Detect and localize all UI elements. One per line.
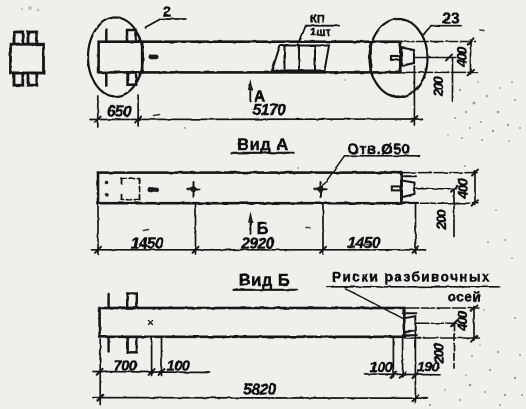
svg-text:осей: осей — [448, 290, 481, 305]
svg-text:100: 100 — [167, 359, 190, 375]
svg-text:1450: 1450 — [131, 236, 164, 253]
svg-text:190: 190 — [417, 359, 440, 375]
svg-text:400: 400 — [455, 310, 470, 332]
hole 1 — [188, 182, 200, 197]
hole 2 — [315, 182, 327, 197]
mid axis line right — [415, 57, 456, 59]
dims 650 / 5170 — [90, 66, 422, 127]
svg-text:2920: 2920 — [240, 236, 274, 253]
small slot mark on beam — [149, 55, 159, 60]
svg-text:КП: КП — [310, 14, 325, 26]
small k mark — [149, 321, 153, 325]
right end detail view B — [403, 313, 418, 335]
scan artifacts — [144, 30, 485, 245]
svg-text:Риски разбивочных: Риски разбивочных — [332, 270, 491, 285]
svg-text:1шт: 1шт — [310, 27, 331, 39]
dots left — [105, 181, 108, 184]
riski marks left — [152, 337, 162, 376]
svg-text:2: 2 — [163, 4, 171, 21]
svg-text:400: 400 — [456, 178, 471, 200]
joint line right block — [369, 42, 372, 73]
svg-text:700: 700 — [114, 359, 137, 375]
beam outline view A — [98, 173, 402, 204]
dim 200 (main view) — [452, 58, 454, 102]
left end rebar stubs — [106, 30, 136, 86]
section arrow B — [250, 216, 252, 235]
KP element (hatched pad) — [272, 46, 329, 71]
dim 400 view B — [473, 307, 475, 341]
dashed bracket — [122, 179, 140, 200]
svg-text:5170: 5170 — [253, 102, 286, 119]
dims 1450 2920 1450 — [92, 204, 426, 255]
joint line left block — [141, 42, 144, 73]
dim 200 view B — [453, 323, 455, 368]
right end embedded detail (main view) — [391, 48, 414, 66]
detail ellipse 23 (right) — [370, 19, 428, 97]
left stubs view B — [109, 294, 137, 353]
svg-text:Вид Б: Вид Б — [239, 272, 290, 290]
dim 400 (main view) — [468, 39, 474, 76]
svg-text:23: 23 — [442, 11, 460, 28]
main elevation: beam body — [99, 42, 401, 73]
svg-text:Вид А: Вид А — [237, 136, 289, 154]
svg-text:400: 400 — [454, 46, 469, 68]
label 2 leader — [145, 19, 186, 28]
slot mark view A — [148, 188, 160, 193]
svg-text:5820: 5820 — [243, 382, 276, 399]
extension from embedded detail centre — [414, 332, 416, 403]
label 23 leader — [424, 26, 462, 35]
top/bottom extension lines right — [402, 41, 476, 43]
svg-text:200: 200 — [431, 76, 446, 98]
column cross-section (top-left) — [11, 32, 44, 85]
svg-text:1450: 1450 — [347, 235, 380, 252]
beam outline view B — [100, 308, 405, 337]
dim 200 view A — [453, 189, 455, 237]
section arrow A — [249, 84, 251, 101]
dim line 700/100 ... 100/190 — [93, 339, 440, 405]
svg-text:200: 200 — [434, 209, 449, 231]
dim 5820 — [93, 397, 428, 400]
svg-text:650: 650 — [107, 104, 132, 121]
right end detail view A — [392, 176, 418, 203]
svg-text:100: 100 — [370, 360, 393, 376]
dim 400 view A — [474, 171, 476, 205]
detail ellipse 2 (left) — [88, 18, 143, 97]
riski marks right — [393, 338, 402, 377]
